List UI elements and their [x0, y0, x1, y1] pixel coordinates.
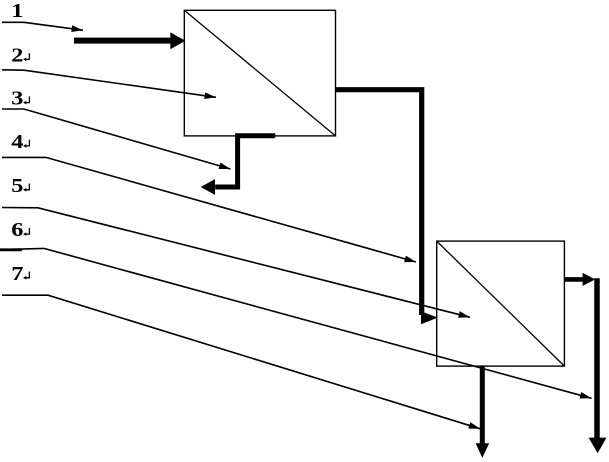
svg-text:1: 1 [11, 0, 23, 21]
svg-text:4: 4 [11, 130, 23, 152]
svg-text:7: 7 [11, 262, 23, 284]
svg-text:2: 2 [11, 43, 23, 65]
svg-text:5: 5 [11, 174, 23, 196]
svg-text:6: 6 [11, 218, 23, 240]
svg-text:3: 3 [11, 87, 23, 109]
